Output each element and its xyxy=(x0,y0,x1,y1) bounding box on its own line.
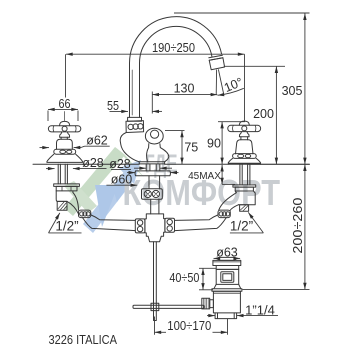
left valve band pads xyxy=(60,150,72,153)
svg-text:55: 55 xyxy=(107,99,119,113)
watermark icon green chevron right leg xyxy=(115,147,144,177)
dimension 40-50 line xyxy=(202,268,204,290)
nozzle level extension line xyxy=(224,65,285,67)
svg-text:100÷170: 100÷170 xyxy=(167,319,211,333)
dimension 100-170 line xyxy=(155,331,167,333)
spout gooseneck inner arc xyxy=(139,26,212,63)
10 degree arc xyxy=(218,88,244,95)
1-1/4 inch leader underline xyxy=(237,315,278,317)
pop-up rod xyxy=(154,242,157,321)
drain knurled lever boss xyxy=(202,298,214,309)
spout swivel hub xyxy=(145,128,163,144)
water stream direction lines xyxy=(216,69,224,95)
right valve skirt xyxy=(228,158,260,164)
svg-text:1”1/4: 1”1/4 xyxy=(245,302,275,317)
diameter 28 left arrows xyxy=(46,168,55,170)
left handle axis line xyxy=(64,112,66,121)
svg-text:ø60: ø60 xyxy=(111,173,133,187)
100-170 extension lines xyxy=(155,317,228,335)
drain neck xyxy=(216,266,239,270)
centre body base lines xyxy=(139,162,164,164)
svg-text:66: 66 xyxy=(59,97,71,111)
right union nut xyxy=(218,210,230,218)
watermark icon blue arrow shaft xyxy=(83,172,134,233)
right valve bell band xyxy=(233,154,257,159)
right 1/2 inch tail xyxy=(240,205,249,212)
drain upper body xyxy=(216,269,239,284)
right mounting nut xyxy=(233,185,256,191)
right valve stem xyxy=(241,137,248,140)
drain lower flange xyxy=(212,289,242,292)
svg-text:40÷50: 40÷50 xyxy=(169,271,199,285)
drain tailpiece xyxy=(215,313,237,319)
swivel level extension line xyxy=(165,130,185,132)
right valve band pads xyxy=(238,154,251,157)
watermark icon blue arrow head xyxy=(119,160,141,184)
left handle hub dome xyxy=(59,121,69,125)
centre body pedestal xyxy=(120,133,169,164)
1-1/4 inch arrows xyxy=(207,315,215,317)
right supply pipe through deck xyxy=(240,164,250,185)
cross right hub xyxy=(165,218,175,232)
spout left leg xyxy=(130,63,140,117)
left elbow body xyxy=(56,191,73,202)
dimension 55 arrows xyxy=(110,110,129,112)
spout gooseneck outer arc xyxy=(130,17,222,63)
diameter 28 centre arrows xyxy=(111,168,146,169)
left union nut xyxy=(79,210,91,218)
dimension 66 line xyxy=(48,108,78,110)
svg-text:90: 90 xyxy=(207,136,221,150)
spout nozzle xyxy=(209,55,225,70)
left 1/2 inch tail xyxy=(57,201,67,210)
right horizontal supply pipe xyxy=(175,215,227,231)
left handle bar xyxy=(48,126,80,132)
half inch right callout flag xyxy=(230,212,264,233)
40-50 top extension xyxy=(199,267,216,269)
dimension 45MAX line xyxy=(221,165,223,185)
dimension 130 line xyxy=(152,94,217,96)
watermark icon blue wedge xyxy=(95,185,118,227)
svg-text:45MAX: 45MAX xyxy=(188,171,221,182)
svg-text:1/2”: 1/2” xyxy=(230,219,253,234)
dimension 190-250 line xyxy=(66,53,245,55)
cross fitting body xyxy=(145,214,165,242)
extension line left valve axis xyxy=(65,54,67,97)
watermark icon green chevron left leg xyxy=(64,147,125,216)
right S-bend to union xyxy=(219,193,239,211)
left valve bell dome xyxy=(57,139,73,149)
extension lines 66 xyxy=(48,111,78,122)
left supply pipe through deck xyxy=(58,164,67,184)
left handle screw xyxy=(62,126,67,131)
40-50 bottom extension xyxy=(199,289,213,291)
right valve bell dome xyxy=(236,140,254,154)
centre pipe to cross xyxy=(151,199,159,214)
svg-text:ø28: ø28 xyxy=(82,156,104,170)
drain lower body xyxy=(213,291,240,313)
svg-text:200÷260: 200÷260 xyxy=(291,198,305,254)
dimension 200-260 line xyxy=(304,164,306,289)
right handle bar xyxy=(228,125,261,131)
svg-text:10°: 10° xyxy=(222,75,245,95)
centre pipe through deck xyxy=(146,164,160,171)
svg-text:ø28: ø28 xyxy=(109,157,131,171)
left horizontal supply pipe xyxy=(83,215,136,231)
watermark icon blue small wedge xyxy=(112,185,129,202)
spout knurled collar xyxy=(126,121,144,133)
drain plug cap xyxy=(218,257,236,260)
left valve bell band xyxy=(54,149,76,154)
svg-text:130: 130 xyxy=(174,82,195,96)
right elbow body xyxy=(235,191,255,205)
dimension 305 line xyxy=(304,13,306,164)
drain body window xyxy=(221,272,234,282)
right handle neck xyxy=(239,132,249,137)
dimension 75 line xyxy=(181,131,183,165)
left handle neck xyxy=(60,132,70,137)
handle top extension line xyxy=(218,121,245,123)
diameter 60 under-deck flange xyxy=(135,171,170,176)
diameter 60 arrows xyxy=(127,172,135,174)
extension line swivel axis xyxy=(151,92,153,114)
left valve stem xyxy=(61,137,67,139)
left mounting nut xyxy=(54,184,80,191)
top extension line xyxy=(174,12,310,14)
left valve skirt xyxy=(47,154,83,164)
drain flare xyxy=(214,284,241,288)
diameter 62 leader and arrows xyxy=(40,147,50,149)
svg-text:75: 75 xyxy=(184,141,198,155)
svg-text:3226 ITALICA: 3226 ITALICA xyxy=(49,333,118,347)
svg-text:1/2”: 1/2” xyxy=(55,219,78,234)
svg-text:305: 305 xyxy=(282,84,303,98)
deck extension line right xyxy=(248,163,310,165)
deck line xyxy=(33,163,310,165)
watermark logo and text (background) xyxy=(64,147,280,233)
centre knurled nut xyxy=(142,189,163,199)
spout leg highlight line xyxy=(131,70,133,115)
diameter 60 leader underline xyxy=(106,184,137,186)
dimension 200 line xyxy=(275,66,277,164)
svg-text:ø63: ø63 xyxy=(216,245,238,259)
right handle screw xyxy=(242,126,247,131)
watermark icon green lower-left edge xyxy=(64,181,97,213)
spout base collar ring xyxy=(128,117,142,121)
svg-text:200: 200 xyxy=(253,107,274,121)
pop-up lever bar xyxy=(133,303,204,310)
cross left hub xyxy=(135,219,145,233)
centre stem below flange xyxy=(149,176,160,189)
diameter 63 arrows xyxy=(214,257,219,259)
drain top flange xyxy=(213,260,241,265)
left S-bend to union xyxy=(67,193,79,214)
svg-text:ø62: ø62 xyxy=(86,134,108,148)
dimension 90 line xyxy=(221,122,223,165)
svg-text:190÷250: 190÷250 xyxy=(152,41,195,55)
45MAX bottom extension xyxy=(222,183,235,185)
right handle hub dome xyxy=(239,121,249,125)
half inch left callout flag xyxy=(49,213,82,233)
extension line right valve axis xyxy=(244,54,246,122)
200-260 bottom extension xyxy=(243,288,310,290)
